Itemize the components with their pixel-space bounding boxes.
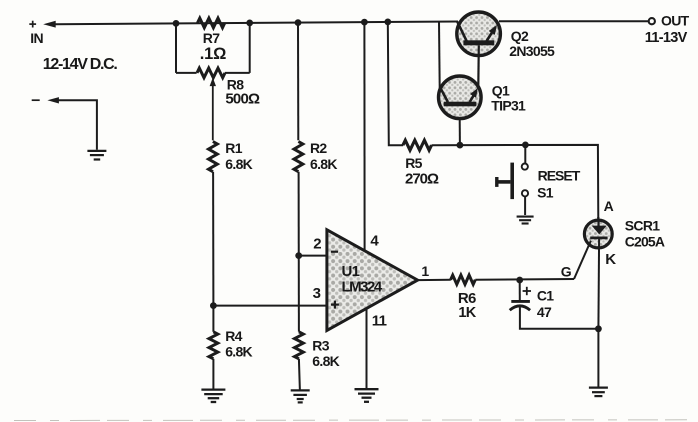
wire R6 to gate corner <box>475 278 574 281</box>
svg-text:1: 1 <box>421 263 429 279</box>
label R3 <box>312 338 329 354</box>
svg-text:Q2: Q2 <box>511 28 529 44</box>
junction Q1 base node <box>457 142 464 149</box>
transistor Q1 <box>439 76 482 119</box>
svg-text:11-13V: 11-13V <box>645 30 688 46</box>
wire R4 to ground <box>212 359 214 390</box>
switch S1 plunger stem <box>495 177 510 187</box>
ground (pin 11) <box>355 389 379 402</box>
wire C1 top lead <box>519 280 521 300</box>
svg-text:R3: R3 <box>312 338 329 354</box>
wire op-amp output <box>418 279 451 281</box>
label C1 value 47 <box>537 304 552 320</box>
junction reset node <box>522 142 529 149</box>
label SCR1 <box>625 217 660 233</box>
label pin 1 <box>421 263 429 279</box>
resistor R2 <box>294 142 303 172</box>
wire R3 to ground <box>299 359 300 391</box>
label + (input polarity) <box>29 21 36 28</box>
svg-text:R2: R2 <box>310 140 327 156</box>
resistor R5 <box>403 140 432 150</box>
svg-text:S1: S1 <box>537 184 554 200</box>
op-amp inverting input mark - <box>331 251 338 253</box>
junction rail-pin4 <box>361 19 368 26</box>
ground (S1) <box>517 217 534 224</box>
svg-text:12-14V D.C.: 12-14V D.C. <box>43 56 118 73</box>
wire R8 right lead <box>225 72 250 74</box>
resistor R3 <box>295 332 304 359</box>
wire SCR node to ground <box>597 329 599 388</box>
wire op-amp pin 2 <box>299 255 327 257</box>
wire R8 left lead <box>176 72 197 74</box>
transistor Q2 <box>457 12 501 56</box>
wire R8 left drop <box>175 23 177 73</box>
label K (cathode) <box>605 251 616 268</box>
label 12-14V D.C. <box>43 56 118 73</box>
resistor R6 <box>451 275 476 284</box>
label RESET <box>538 168 581 184</box>
label pin 2 <box>313 235 321 252</box>
junction pin2 node <box>295 252 302 259</box>
label R4 <box>225 328 242 344</box>
junction rail-R8 right <box>246 20 253 27</box>
resistor R1 <box>209 142 218 172</box>
label Q2 <box>511 28 529 44</box>
scan artifact bottom edge <box>14 419 692 422</box>
label 11-13V <box>645 30 688 46</box>
svg-text:IN: IN <box>30 30 43 46</box>
label - (input polarity) <box>32 99 40 101</box>
label S1 <box>537 184 554 200</box>
label IN <box>30 30 43 46</box>
wire Q1 base <box>459 106 461 146</box>
capacitor C1 curved plate <box>510 306 530 310</box>
wire SCR cathode to node <box>597 238 600 329</box>
svg-text:1K: 1K <box>458 305 476 321</box>
svg-text:3: 3 <box>313 285 321 302</box>
ground (R3) <box>291 390 310 402</box>
wire reset drop <box>524 145 526 164</box>
label R5 <box>405 155 422 171</box>
wire op-amp pin 4 (V+) <box>363 22 365 251</box>
svg-text:6.8K: 6.8K <box>310 156 337 172</box>
svg-text:4: 4 <box>370 232 379 249</box>
junction SCR cathode node <box>595 325 602 332</box>
label G <box>561 264 572 280</box>
svg-text:11: 11 <box>372 313 387 330</box>
wire - input to ground <box>59 100 97 150</box>
svg-text:RESET: RESET <box>538 168 581 184</box>
wire R1 to node A junction <box>212 172 214 306</box>
wire R2 to R3 <box>298 172 300 332</box>
svg-text:C1: C1 <box>537 288 554 304</box>
svg-text:SCR1: SCR1 <box>625 217 660 233</box>
wire rail to R2 <box>297 23 299 141</box>
op-amp non-inverting mark + <box>331 301 339 309</box>
svg-text:R5: R5 <box>405 155 422 171</box>
ground (R4) <box>201 390 225 402</box>
svg-text:.1Ω: .1Ω <box>200 45 226 63</box>
wire reset to ground <box>524 196 526 215</box>
ground (input common) <box>87 151 106 160</box>
wire node to R4 <box>212 306 214 332</box>
label A (anode) <box>604 198 614 214</box>
svg-text:K: K <box>605 251 616 268</box>
label R2 value 6.8K <box>310 156 337 172</box>
resistor R4 <box>209 332 218 359</box>
wire SCR gate <box>574 241 591 279</box>
label LM324 <box>342 279 383 296</box>
svg-text:A: A <box>604 198 614 214</box>
ground (SCR) <box>589 388 608 397</box>
wire R5 to SCR anode <box>432 145 599 220</box>
switch S1 lower contact <box>522 190 528 196</box>
label R1 <box>225 140 242 156</box>
label R4 value 6.8K <box>225 343 252 359</box>
label R8 <box>227 77 244 93</box>
junction C1 node <box>516 277 523 284</box>
label pin 3 <box>313 285 321 302</box>
node + input arrow <box>43 21 56 28</box>
label R3 value 6.8K <box>312 353 339 369</box>
label pin 11 <box>372 313 387 330</box>
terminal OUT <box>649 18 655 24</box>
thyristor SCR1 <box>584 217 612 248</box>
label 500 ohm <box>225 91 260 108</box>
junction rail-R8 left <box>173 20 180 27</box>
svg-text:G: G <box>561 264 572 280</box>
resistor R8 <box>197 68 225 78</box>
wire R8 right rise <box>249 23 251 73</box>
wire rail to Q1 collector <box>438 22 441 88</box>
label R6 <box>458 290 476 307</box>
junction rail-R2 <box>295 19 302 26</box>
junction pin3 node <box>210 302 217 309</box>
svg-text:LM324: LM324 <box>342 279 383 296</box>
svg-text:47: 47 <box>537 304 552 320</box>
label R6 value 1K <box>458 305 476 321</box>
label Q1 <box>492 83 510 99</box>
wire top positive rail (IN to Q2) <box>55 22 458 25</box>
node - input arrow <box>47 97 59 103</box>
svg-text:6.8K: 6.8K <box>225 343 252 359</box>
label C1 <box>537 288 554 304</box>
svg-text:6.8K: 6.8K <box>225 156 252 172</box>
label U1 <box>342 263 360 280</box>
wire op-amp pin 11 (V-) <box>366 308 368 389</box>
resistor R7 <box>198 18 225 28</box>
op-amp U1 <box>327 230 418 331</box>
label 270 ohm <box>405 170 439 187</box>
label .1 ohm <box>200 45 226 63</box>
switch S1 upper contact <box>522 164 528 170</box>
label 2N3055 <box>509 43 555 59</box>
label OUT <box>661 13 690 29</box>
capacitor C1 plus plate <box>511 300 530 303</box>
wire C1 bottom lead <box>520 307 599 329</box>
label R2 <box>310 140 327 156</box>
svg-text:2: 2 <box>313 235 321 252</box>
svg-text:270Ω: 270Ω <box>405 170 439 187</box>
svg-text:500Ω: 500Ω <box>225 91 260 108</box>
label TIP31 <box>491 98 526 114</box>
svg-text:6.8K: 6.8K <box>312 353 339 369</box>
wire Q2 base to Q1 emitter <box>477 45 480 86</box>
svg-text:Q1: Q1 <box>492 83 510 99</box>
svg-text:TIP31: TIP31 <box>491 98 526 114</box>
svg-text:C205A: C205A <box>625 233 665 249</box>
label pin 4 <box>370 232 379 249</box>
svg-text:R1: R1 <box>225 140 242 156</box>
label C1 polarity + <box>523 287 531 295</box>
label C205A <box>625 233 665 249</box>
svg-text:2N3055: 2N3055 <box>509 43 555 59</box>
node R8 wiper arrow <box>210 78 216 141</box>
junction rail-R5 <box>384 19 391 26</box>
svg-text:OUT: OUT <box>661 13 690 29</box>
switch S1 plunger bar <box>510 163 514 200</box>
wire op-amp pin 3 <box>213 305 327 307</box>
wire rail to R5 <box>388 22 403 145</box>
wire top rail (Q2 emitter to OUT) <box>499 20 649 22</box>
svg-text:R7: R7 <box>203 30 220 46</box>
label R7 <box>203 30 220 46</box>
label R1 value 6.8K <box>225 156 252 172</box>
svg-text:R4: R4 <box>225 328 242 344</box>
